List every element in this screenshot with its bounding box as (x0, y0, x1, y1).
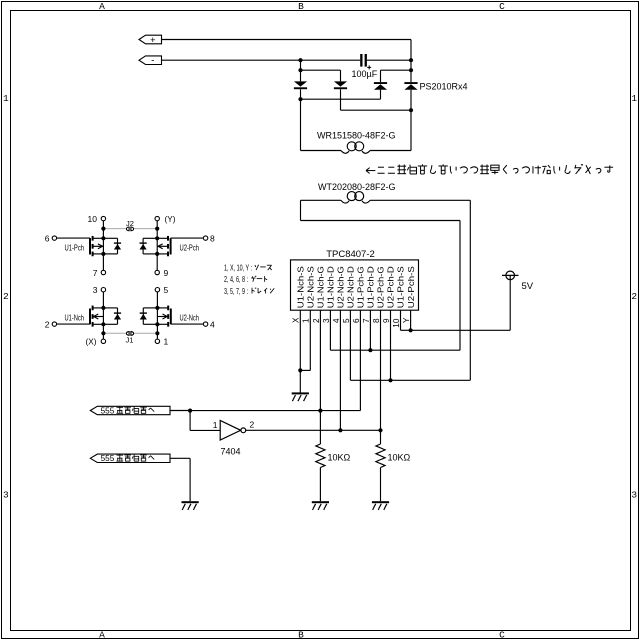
wire L2 left to U1 drains pins 3,7 (301, 200, 461, 352)
wire pin 3 (329, 310, 331, 350)
value label 100µF (352, 69, 378, 79)
note text annotation (366, 164, 613, 174)
svg-text:4: 4 (210, 319, 215, 329)
svg-text:10: 10 (392, 318, 401, 328)
pin 3 terminal (93, 285, 106, 295)
svg-text:2, 4, 6, 8 :: 2, 4, 6, 8 : (224, 275, 248, 284)
svg-text:2: 2 (631, 291, 637, 302)
wire to inverter input (190, 411, 220, 431)
wire gate U1-Nch to pin2 (57, 323, 90, 325)
svg-text:B: B (298, 1, 304, 12)
node + input flag (139, 35, 162, 46)
wire - rail (162, 58, 414, 62)
wire pin5 to U2-Nch drain (156, 292, 158, 308)
svg-text:9: 9 (382, 318, 391, 323)
IC pin net labels X 1-10 Y (292, 317, 411, 328)
label U1-Nch (65, 313, 85, 322)
wire pin 4 (339, 310, 341, 430)
value label 10KΩ R2 (388, 453, 411, 463)
svg-text:U1-Nch-G: U1-Nch-G (317, 266, 326, 308)
label 5V (522, 281, 534, 292)
ground GND4 (372, 501, 389, 510)
svg-text:C: C (499, 630, 505, 640)
wire pin3 to U1-Nch drain (102, 292, 104, 308)
svg-text:3: 3 (93, 285, 98, 295)
svg-text:U2-Pch: U2-Pch (180, 243, 200, 252)
label U2-Pch (180, 243, 200, 252)
pin Y terminal (155, 214, 176, 224)
ground GND3 (312, 501, 329, 510)
transistor U2-Nch (140, 306, 171, 327)
legend text pins (224, 263, 274, 295)
wire + rail (162, 40, 412, 83)
svg-text:PS2010Rx4: PS2010Rx4 (420, 82, 468, 92)
svg-text:4: 4 (332, 318, 341, 323)
svg-text:U2-Nch-D: U2-Nch-D (347, 266, 356, 308)
pin label 1 inverter (213, 420, 218, 430)
pin X terminal (86, 337, 106, 347)
svg-text:+: + (150, 35, 156, 46)
resistor R1 10K (316, 411, 325, 502)
svg-text:1: 1 (302, 318, 311, 323)
pin 2 terminal (45, 319, 57, 329)
diode D4 (404, 82, 417, 90)
svg-text:1: 1 (164, 337, 169, 347)
svg-text:WT202080-28F2-G: WT202080-28F2-G (318, 182, 396, 192)
wire pin 9 (390, 310, 392, 380)
transistor U1-Pch (90, 236, 121, 256)
svg-text:555: 555 (101, 406, 115, 415)
svg-text:U2-Pch-D: U2-Pch-D (387, 266, 396, 308)
IC pin name labels (297, 266, 416, 309)
svg-text:555: 555 (101, 454, 115, 463)
node - input flag (139, 55, 162, 66)
svg-text:U1-Pch-S: U1-Pch-S (397, 266, 406, 309)
svg-text:2: 2 (3, 291, 9, 302)
svg-text:1: 1 (213, 420, 218, 430)
wire pin 7 (369, 310, 371, 350)
wire 5V to pins 10,Y (509, 280, 511, 331)
svg-text:5V: 5V (522, 281, 534, 292)
wire U1-Pch source to pin7 (102, 254, 104, 270)
svg-text:J2: J2 (126, 219, 134, 228)
wire gate U1-Pch to pin6 (57, 237, 90, 239)
diode D3 (374, 82, 387, 90)
wire pin 6 (359, 310, 361, 410)
resistor R2 10K (376, 430, 385, 501)
wire - branch to D1 D2 (298, 60, 340, 81)
svg-text:1, X, 10, Y :: 1, X, 10, Y : (224, 263, 252, 272)
svg-text:U1-Pch: U1-Pch (65, 243, 85, 252)
label U1-Pch (65, 243, 85, 252)
svg-text:2: 2 (250, 420, 255, 430)
svg-text:5: 5 (164, 285, 169, 295)
svg-text:A: A (99, 630, 105, 640)
svg-text:U2-Pch-S: U2-Pch-S (407, 266, 416, 309)
inductor L1 receive coil (301, 142, 412, 154)
svg-text:1: 1 (3, 93, 9, 104)
ground GND1 (292, 392, 309, 401)
svg-text:U2-Pch-G: U2-Pch-G (377, 266, 386, 308)
label TPC8407-2 (326, 249, 375, 260)
wire U2-Nch source to pin1 (156, 324, 158, 339)
jumper J1 (101, 331, 159, 344)
jumper J2 (101, 219, 159, 231)
value label PS2010Rx4 (420, 82, 468, 92)
pin 4 terminal (203, 319, 215, 329)
wire flag2 to ground (170, 458, 190, 501)
label 7404 (221, 447, 241, 457)
svg-text:9: 9 (164, 268, 169, 278)
svg-text:5: 5 (342, 318, 351, 323)
wire pin Y to 5V (409, 310, 511, 332)
wire + branch to D3 D4 (381, 68, 414, 82)
svg-text:6: 6 (352, 318, 361, 323)
svg-text:3: 3 (3, 490, 9, 501)
wire AC2 node D2-D4 (341, 89, 414, 150)
power 5V symbol (502, 271, 519, 280)
svg-text:7: 7 (93, 268, 98, 278)
pin 7 terminal (93, 268, 106, 278)
wire pinY to U2-Pch drain (156, 221, 158, 239)
svg-text:U2-Nch: U2-Nch (180, 313, 200, 322)
pin 8 terminal (203, 233, 215, 243)
svg-text:B: B (298, 630, 304, 640)
svg-text:7: 7 (362, 318, 371, 323)
svg-text:U1-Pch-D: U1-Pch-D (367, 266, 376, 308)
wire L2 right to U2 drains pins 5,9 (350, 200, 470, 382)
wire pin 8 (380, 310, 382, 430)
svg-text:10KΩ: 10KΩ (328, 453, 351, 463)
flag 555 oscillator input 1 (90, 406, 170, 415)
svg-text:2: 2 (45, 319, 50, 329)
label U2-Nch (180, 313, 200, 322)
svg-text:A: A (99, 1, 105, 12)
value label 10KΩ R1 (328, 453, 351, 463)
svg-text:(Y): (Y) (165, 214, 176, 224)
wire gate U2-Nch to pin4 (171, 323, 204, 325)
pin label 2 inverter (250, 420, 255, 430)
svg-text:U2-Nch-S: U2-Nch-S (307, 266, 316, 309)
svg-text:7404: 7404 (221, 447, 241, 457)
wire pin 1 (298, 310, 310, 372)
ground GND2 (182, 501, 199, 510)
wire gate U2-Pch to pin8 (171, 237, 204, 239)
value label WR151580-48F2-G (317, 131, 396, 141)
wire U2-Pch source to pin9 (156, 254, 158, 270)
svg-text:U2-Nch-G: U2-Nch-G (337, 266, 346, 308)
wire pin 5 (349, 310, 351, 380)
inductor L2 transmit coil (301, 192, 471, 204)
svg-text:2: 2 (312, 318, 321, 323)
IC U3 TPC8407-2 box (291, 260, 419, 310)
wire pin10 to U1-Pch drain (102, 221, 104, 239)
wire non-inverted gate line (170, 409, 360, 413)
svg-text:3, 5, 7, 9 :: 3, 5, 7, 9 : (224, 287, 248, 296)
svg-text:-: - (151, 55, 154, 66)
wire pin X to ground (299, 310, 301, 393)
transistor U2-Pch (140, 236, 171, 256)
svg-text:8: 8 (210, 233, 215, 243)
svg-text:U1-Nch-D: U1-Nch-D (327, 266, 336, 308)
pin 9 terminal (155, 268, 169, 278)
capacitor C1 (360, 54, 371, 69)
svg-text:10KΩ: 10KΩ (388, 453, 411, 463)
wire pin 10 (401, 310, 411, 330)
svg-text:WR151580-48F2-G: WR151580-48F2-G (317, 131, 396, 141)
svg-text:10: 10 (88, 214, 98, 224)
pin 10 terminal (88, 214, 106, 224)
pin 1 terminal (155, 337, 168, 347)
svg-text:6: 6 (45, 233, 50, 243)
pin 5 terminal (155, 285, 168, 295)
pin 6 terminal (45, 233, 57, 243)
diode D2 (334, 81, 347, 89)
wire pin 2 (319, 310, 321, 410)
svg-text:1: 1 (631, 93, 637, 104)
svg-text:3: 3 (322, 318, 331, 323)
wire AC1 node D1-D3 (298, 89, 380, 150)
transistor U1-Nch (90, 306, 121, 327)
wire inverted gate line (246, 428, 383, 432)
svg-text:3: 3 (631, 490, 637, 501)
svg-text:Y: Y (402, 317, 411, 323)
svg-text:U1-Nch-S: U1-Nch-S (297, 266, 306, 309)
svg-text:J1: J1 (126, 335, 134, 344)
svg-text:U1-Pch-G: U1-Pch-G (357, 266, 366, 308)
wire U1-Nch source to pinX (102, 324, 104, 339)
diode D1 (294, 81, 307, 89)
inverter U4 7404 (220, 420, 246, 440)
flag 555 oscillator input 2 (90, 454, 170, 463)
svg-text:100µF: 100µF (352, 69, 378, 79)
svg-text:(X): (X) (86, 337, 97, 347)
svg-text:8: 8 (372, 318, 381, 323)
svg-text:C: C (499, 1, 505, 12)
svg-text:TPC8407-2: TPC8407-2 (326, 249, 375, 260)
svg-text:U1-Nch: U1-Nch (65, 313, 85, 322)
svg-text:X: X (292, 317, 301, 323)
value label WT202080-28F2-G (318, 182, 396, 192)
